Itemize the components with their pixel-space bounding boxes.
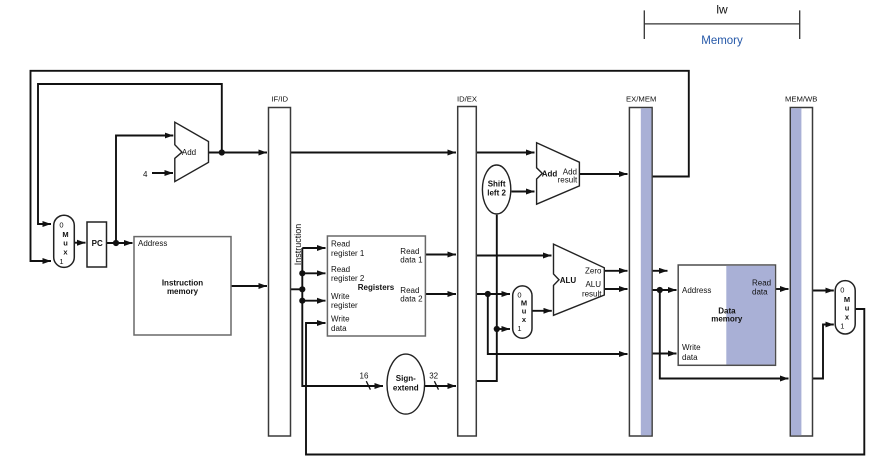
data memory box xyxy=(678,265,775,365)
svg-text:register 2: register 2 xyxy=(331,274,365,283)
svg-text:Memory: Memory xyxy=(701,35,743,47)
wire branch-target loop: EX/MEM out right, up over top, down left into Mux input 1 xyxy=(31,71,689,261)
pipeline register IF/ID xyxy=(269,108,291,437)
mux PCSrc xyxy=(54,215,75,267)
junction node read data 2 split xyxy=(485,291,491,297)
svg-text:32: 32 xyxy=(429,372,438,381)
svg-text:data: data xyxy=(682,353,698,362)
svg-text:ID/EX: ID/EX xyxy=(457,95,477,104)
svg-text:Write: Write xyxy=(331,314,350,323)
wire branch adder result to EX/MEM xyxy=(580,173,628,175)
adder PC+4 xyxy=(175,122,209,181)
svg-text:0: 0 xyxy=(59,221,63,230)
wire data memory Read data to MEM/WB xyxy=(776,288,789,290)
wire MEM/WB read data to WB mux input 0 xyxy=(813,290,834,292)
svg-text:extend: extend xyxy=(393,384,419,393)
svg-text:u: u xyxy=(63,238,68,247)
wire Mux to PC xyxy=(74,242,85,244)
junction node address split xyxy=(657,287,663,293)
svg-text:Write: Write xyxy=(682,343,701,352)
sign extend ellipse xyxy=(387,354,425,414)
instruction memory box xyxy=(134,237,231,335)
wire ALU result bypass down to MEM/WB xyxy=(660,290,789,379)
wire Add output to IF/ID xyxy=(209,152,268,154)
svg-text:Sign-: Sign- xyxy=(396,374,416,383)
svg-text:data: data xyxy=(331,324,347,333)
svg-text:data 1: data 1 xyxy=(400,256,423,265)
wire EX/MEM ALU result to data memory Address xyxy=(653,289,677,291)
wire ALU Zero to EX/MEM xyxy=(605,270,628,272)
legend bracket for lw instruction xyxy=(644,10,799,39)
wire read data 2 down to EX/MEM (write data) xyxy=(488,294,628,354)
svg-text:register: register xyxy=(331,301,358,310)
bus width slash 32 xyxy=(434,381,438,389)
svg-text:EX/MEM: EX/MEM xyxy=(626,95,656,104)
svg-text:Address: Address xyxy=(138,239,167,248)
svg-text:memory: memory xyxy=(711,315,743,324)
svg-text:Read: Read xyxy=(752,279,771,288)
junction node bus read reg 2 xyxy=(299,270,305,276)
pipeline register EX/MEM xyxy=(629,108,652,437)
svg-text:Read: Read xyxy=(331,240,350,249)
wire Read data 1 to ID/EX xyxy=(426,254,456,256)
wire sign-extend output to ID/EX xyxy=(425,385,456,387)
wire IF/ID instruction out to bus xyxy=(291,288,303,290)
svg-text:memory: memory xyxy=(167,287,199,296)
wire instruction memory output to IF/ID xyxy=(231,285,267,287)
svg-text:result: result xyxy=(558,176,578,185)
label mux PCSrc 0/M/u/x/1 xyxy=(59,221,68,267)
svg-text:Add: Add xyxy=(542,170,558,179)
label mux ALUSrc xyxy=(517,290,527,333)
shift left 2 ellipse xyxy=(482,165,510,214)
wire ID/EX read data 1 to ALU xyxy=(477,255,552,257)
svg-text:Write: Write xyxy=(331,292,350,301)
svg-text:1: 1 xyxy=(840,322,844,331)
svg-text:lw: lw xyxy=(716,3,728,17)
svg-text:Read: Read xyxy=(331,265,350,274)
svg-text:Add: Add xyxy=(182,148,196,157)
MEM/WB blue left half xyxy=(791,108,801,435)
EX/MEM blue right half xyxy=(641,108,652,435)
ALU xyxy=(554,244,605,315)
svg-text:MEM/WB: MEM/WB xyxy=(785,95,817,104)
wire ID/EX sign-extend out up to shift left 2 xyxy=(477,215,497,381)
svg-text:1: 1 xyxy=(517,324,521,333)
junction node sign-ext to mux xyxy=(494,326,500,332)
wire bus to Write register xyxy=(302,300,325,302)
svg-text:data: data xyxy=(752,288,768,297)
junction node bus instruction xyxy=(299,286,305,292)
wire EX/MEM write data to data memory xyxy=(653,353,677,355)
wire constant 4 into Add xyxy=(152,172,173,174)
wire PC to instruction memory Address xyxy=(107,242,133,244)
wire EX/MEM zero out (dangling) xyxy=(653,270,668,272)
mux WB xyxy=(835,281,855,334)
svg-text:1: 1 xyxy=(59,257,63,266)
svg-text:Instruction: Instruction xyxy=(293,224,303,266)
svg-text:left 2: left 2 xyxy=(487,188,506,197)
wire bus to Read register 2 xyxy=(302,272,325,274)
bus width slash 16 xyxy=(366,381,370,389)
adder branch xyxy=(537,143,580,205)
data memory blue right part xyxy=(726,266,774,365)
svg-text:data 2: data 2 xyxy=(400,295,423,304)
svg-text:ALU: ALU xyxy=(560,276,577,285)
PC register xyxy=(87,222,107,267)
svg-text:0: 0 xyxy=(840,286,844,295)
wire PC junction up to Add input xyxy=(116,136,173,244)
svg-text:Shift: Shift xyxy=(488,179,506,188)
wire MEM/WB ALU result to WB mux input 1 xyxy=(813,325,834,379)
wire write-back return: WB mux out, down, across bottom, up into Write data xyxy=(306,309,864,455)
svg-text:Zero: Zero xyxy=(585,267,602,276)
svg-text:result: result xyxy=(582,290,602,299)
svg-text:u: u xyxy=(845,303,850,312)
wire ALUSrc mux output to ALU xyxy=(532,310,552,312)
junction node PC+4 adder out xyxy=(219,149,225,155)
svg-text:Address: Address xyxy=(682,286,711,295)
mux ALUSrc xyxy=(513,286,532,338)
wire ID/EX read data 2 to ALUSrc mux input 0 xyxy=(477,293,511,295)
wire shift left 2 to branch adder xyxy=(512,191,535,193)
wire Read data 2 to ID/EX xyxy=(426,293,456,295)
svg-text:IF/ID: IF/ID xyxy=(271,95,288,104)
svg-text:4: 4 xyxy=(143,170,148,179)
wire bus to Read register 1 xyxy=(302,247,325,249)
pipeline register ID/EX xyxy=(458,107,477,437)
wire sign-extend branch to ALUSrc mux input 1 xyxy=(497,328,510,330)
wire PC+4 loop: from adder output junction up, left, down into Mux input 0 xyxy=(38,84,222,224)
wire ALU result to EX/MEM xyxy=(605,288,628,290)
svg-text:ALU: ALU xyxy=(585,280,601,289)
pipeline register MEM/WB xyxy=(790,108,812,437)
svg-text:16: 16 xyxy=(360,372,369,381)
svg-text:register 1: register 1 xyxy=(331,249,365,258)
svg-text:PC: PC xyxy=(92,239,103,248)
junction node PC out xyxy=(113,240,119,246)
wire instruction bus vertical down to sign-extend xyxy=(302,248,383,386)
wire PC+4 through IF/ID to ID/EX xyxy=(291,152,457,154)
svg-text:u: u xyxy=(522,307,527,316)
label mux WB xyxy=(840,286,850,331)
registers box xyxy=(327,236,425,336)
junction node bus write register xyxy=(299,298,305,304)
svg-text:Registers: Registers xyxy=(358,283,395,292)
wire ID/EX PC+4 out to branch adder xyxy=(477,152,535,154)
